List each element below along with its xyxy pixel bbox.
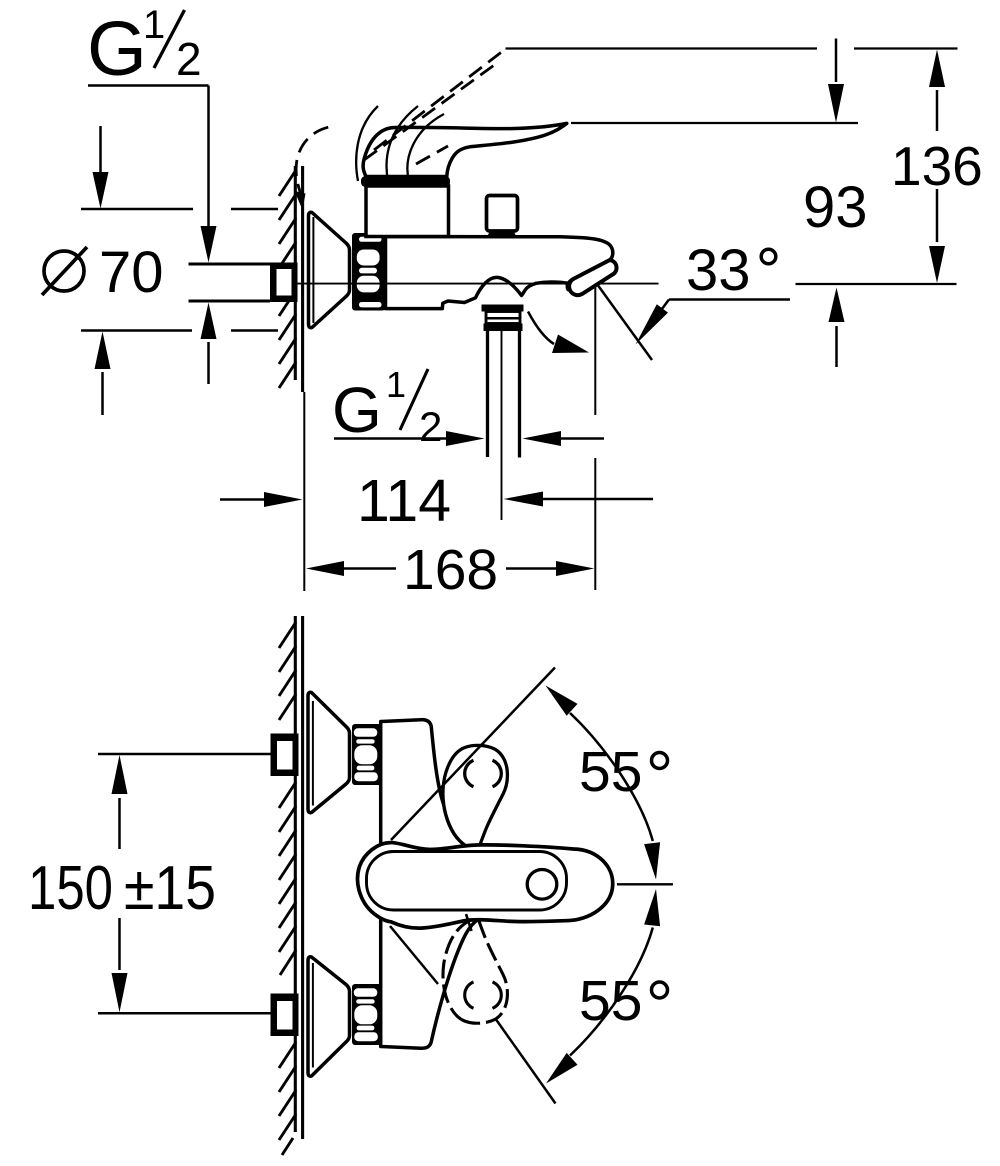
33° leader: [636, 300, 791, 345]
supply hex nut upper (plan): [271, 734, 299, 777]
capsule inner contour: [367, 852, 567, 911]
rotated lever teardrop lower (dashed phantom): [443, 920, 507, 1023]
hose union nut below spout: [482, 305, 524, 332]
dimension 168: [306, 538, 594, 602]
lever handle (rest position): [363, 123, 567, 176]
centerline of faucet axis: [296, 283, 659, 285]
handle motion arrow: [295, 191, 306, 210]
svg-text:1: 1: [143, 3, 165, 47]
svg-text:±15: ±15: [124, 854, 216, 923]
svg-text:55: 55: [579, 740, 642, 804]
wall hatching (plan view): [279, 622, 296, 1155]
hose connection pipe G1/2: [488, 331, 520, 520]
dimension 93: [803, 39, 868, 368]
diverter knob: [487, 196, 518, 237]
dimension 136: [891, 50, 983, 284]
middle lever capsule (plan): [358, 843, 613, 929]
G 1/2 hose dimension arrows: [334, 431, 604, 446]
svg-text:55: 55: [579, 969, 642, 1033]
svg-text:33: 33: [686, 238, 751, 303]
svg-text:G: G: [332, 374, 382, 446]
handle base strip: [361, 176, 450, 187]
dimension Ø70: [42, 240, 164, 305]
supply hex nut lower (plan): [271, 994, 299, 1037]
vertex centerline: [617, 883, 673, 885]
supply pipe G1/2 behind wall: [189, 264, 271, 301]
55° line upper: [391, 668, 555, 841]
raised handle (dashed phantom): [296, 49, 505, 199]
dimension 150 ±15: [28, 755, 216, 1012]
G 1/2 leader and arrows: [88, 86, 217, 385]
spray arc arrow: [528, 312, 589, 354]
wall (side view) double line: [295, 166, 302, 392]
svg-text:2: 2: [176, 33, 202, 85]
spray direction line: [597, 284, 652, 360]
svg-text:136: 136: [891, 135, 983, 197]
svg-text:114: 114: [357, 468, 451, 534]
reference line handle top (93): [571, 122, 858, 124]
rotated lever teardrop upper (55 deg position): [443, 745, 507, 848]
svg-text:93: 93: [803, 175, 868, 240]
svg-text:168: 168: [403, 538, 498, 602]
svg-text:70: 70: [99, 240, 164, 305]
wall hatching (side view): [279, 170, 296, 388]
svg-text:G: G: [87, 6, 147, 92]
svg-text:2: 2: [419, 403, 442, 450]
label G 1/2 (hose thread): [332, 364, 442, 450]
55° arc lower: [546, 889, 660, 1084]
55° line lower: [390, 926, 438, 984]
upper housing (cartridge): [366, 186, 449, 237]
text 55° lower: [579, 969, 668, 1033]
dimension 33° spray angle: [686, 238, 776, 303]
faucet body (plan view): [381, 720, 478, 1049]
escutcheon cone (side view): [309, 212, 350, 327]
wall (plan view) double line: [295, 616, 302, 1139]
text 55° upper: [579, 740, 668, 804]
label G 1/2 (supply thread): [87, 3, 202, 92]
escutcheon cone lower (plan): [308, 957, 350, 1076]
aerator extension line (168): [594, 284, 596, 590]
svg-text:1: 1: [386, 364, 406, 405]
wall face extension line: [303, 392, 305, 591]
union hex nut lower (plan): [352, 984, 382, 1045]
faucet body with spout (side view): [386, 237, 613, 309]
reference line spout level right: [796, 283, 957, 285]
dimension 114: [220, 468, 653, 534]
union hex nut (side view): [352, 233, 386, 311]
escutcheon cone upper (plan): [308, 692, 350, 812]
teardrop lower tail tick: [466, 914, 472, 931]
handle motion arcs: [356, 106, 444, 181]
dimension 150 ±15 extension lines: [98, 754, 271, 1013]
reference line raised handle top (136): [506, 47, 958, 49]
55° arc upper: [546, 686, 661, 880]
supply hex nut behind wall: [270, 263, 298, 303]
union hex nut upper (plan): [352, 724, 382, 785]
aerator: [569, 260, 616, 295]
capsule pin hole: [527, 870, 557, 900]
teardrop upper pin hole: [465, 760, 502, 786]
svg-text:150: 150: [28, 854, 113, 923]
